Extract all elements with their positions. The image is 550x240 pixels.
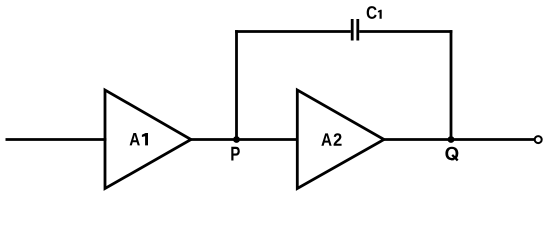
wire input to A1: [6, 138, 107, 141]
label A2: [321, 133, 341, 146]
node Q junction dot: [448, 136, 455, 143]
wire A2 output to terminal: [384, 138, 534, 141]
output terminal O: [535, 136, 542, 143]
label A1: [130, 133, 148, 145]
node P junction dot: [233, 136, 240, 143]
op-amp A1: [105, 90, 191, 189]
Q tail stroke: [452, 155, 458, 161]
wire node P up: [235, 30, 238, 139]
op-amp A2: [297, 90, 384, 189]
wire A1 output to A2 input: [191, 138, 299, 141]
label Q: [445, 147, 458, 164]
wire capacitor to top right: [359, 30, 452, 33]
label C1: [367, 6, 382, 19]
capacitor C1: [352, 19, 358, 41]
wire top left to capacitor: [235, 30, 351, 33]
wire down to node Q: [450, 30, 453, 139]
label P: [231, 147, 239, 161]
